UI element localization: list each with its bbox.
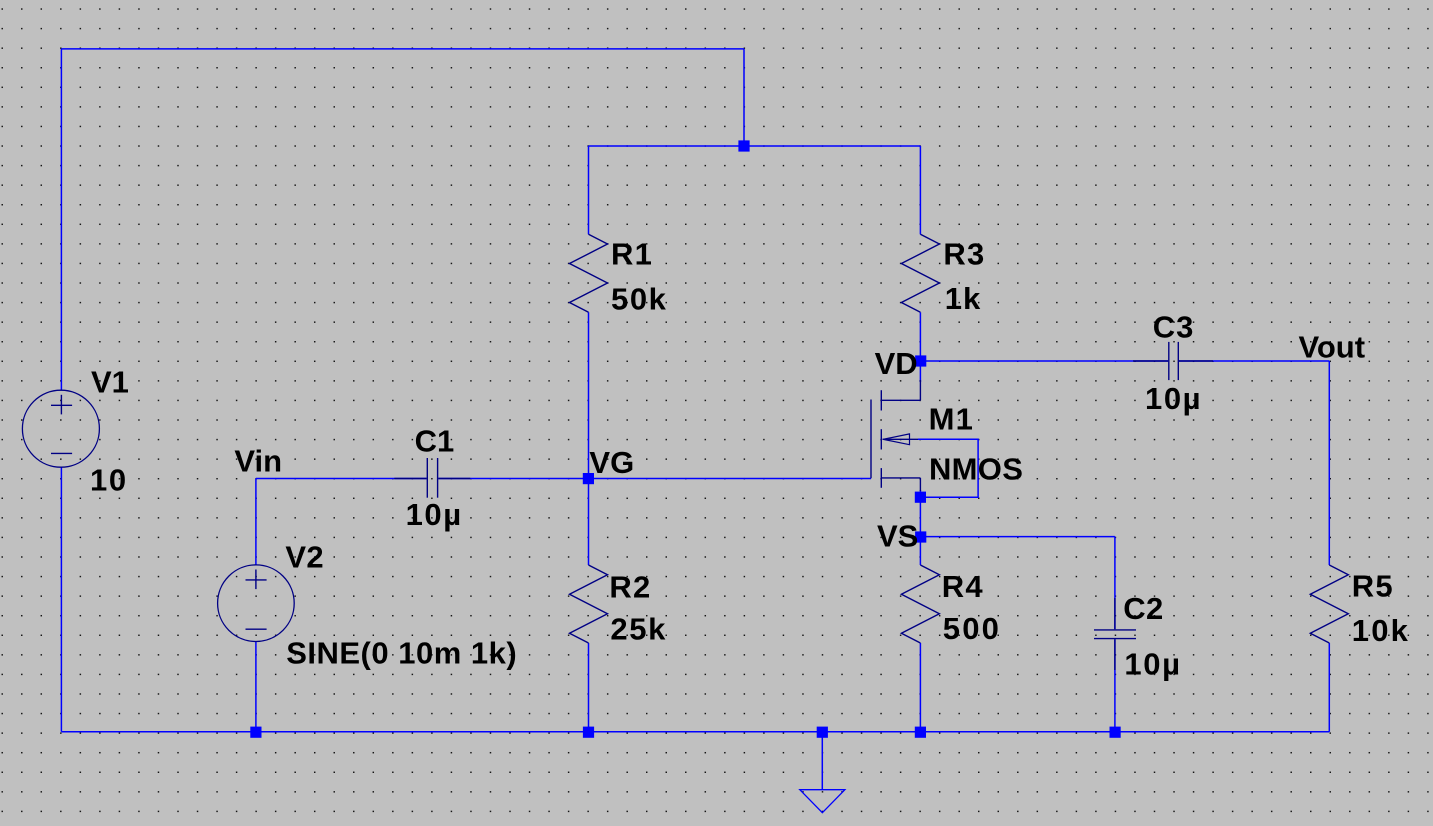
svg-text:VS: VS <box>877 518 918 553</box>
svg-text:Vout: Vout <box>1299 330 1366 365</box>
svg-text:V1: V1 <box>91 365 129 400</box>
svg-text:10: 10 <box>90 463 128 498</box>
svg-text:C1: C1 <box>415 424 455 459</box>
svg-text:M1: M1 <box>929 402 974 437</box>
svg-text:10µ: 10µ <box>406 497 463 532</box>
svg-text:V2: V2 <box>285 539 324 574</box>
svg-text:VG: VG <box>589 445 634 480</box>
svg-text:10k: 10k <box>1352 613 1410 648</box>
svg-text:R3: R3 <box>943 236 985 271</box>
svg-text:50k: 50k <box>611 282 668 317</box>
svg-text:10µ: 10µ <box>1124 647 1181 682</box>
svg-text:25k: 25k <box>610 612 667 647</box>
svg-text:SINE(0 10m 1k): SINE(0 10m 1k) <box>286 636 517 671</box>
svg-text:10µ: 10µ <box>1145 381 1202 416</box>
svg-text:R4: R4 <box>942 569 984 604</box>
svg-text:C3: C3 <box>1153 309 1195 344</box>
svg-text:VD: VD <box>875 346 918 381</box>
svg-text:R1: R1 <box>611 236 653 271</box>
svg-text:1k: 1k <box>945 281 981 316</box>
svg-text:R5: R5 <box>1352 569 1394 604</box>
svg-text:500: 500 <box>943 611 1001 646</box>
svg-text:NMOS: NMOS <box>929 452 1023 487</box>
svg-text:Vin: Vin <box>234 443 282 478</box>
svg-text:R2: R2 <box>609 570 651 605</box>
svg-text:C2: C2 <box>1123 591 1163 626</box>
